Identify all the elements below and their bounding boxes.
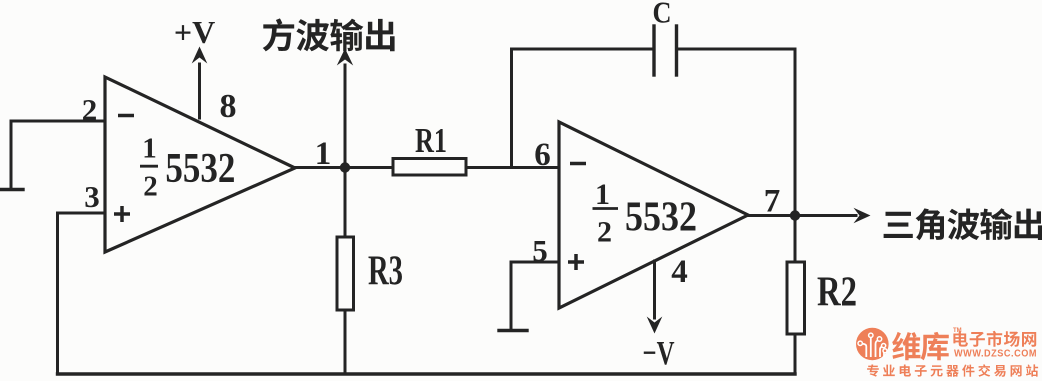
- svg-text:C: C: [653, 0, 672, 30]
- bottom rail wire: [58, 372, 796, 375]
- svg-text:7: 7: [764, 184, 781, 220]
- svg-text:2: 2: [143, 171, 158, 203]
- svg-text:1: 1: [142, 133, 157, 165]
- svg-text:5: 5: [532, 233, 548, 268]
- logo text dian zi shi chang wang: [953, 331, 1036, 347]
- svg-text:5532: 5532: [165, 146, 235, 192]
- ground (pin2 input): [0, 188, 23, 191]
- logo icon circle (dzsc watermark): [856, 328, 889, 361]
- svg-text:8: 8: [220, 88, 237, 125]
- svg-text:3: 3: [84, 179, 100, 214]
- triangle-wave output label (san jiao bo shu chu): [884, 208, 1042, 240]
- logo tagline zhuan ye dian zi yuan qi jian jiao yi wang zhan: [867, 364, 1038, 377]
- -V arrowhead: [647, 317, 663, 334]
- wire triangle-wave output arrow shaft: [795, 214, 856, 217]
- svg-text:−V: −V: [643, 335, 675, 372]
- ground (pin5): [499, 329, 527, 332]
- svg-text:6: 6: [534, 137, 551, 173]
- wire square-wave output (node 1 up): [344, 65, 347, 168]
- capacitor C plates: [652, 26, 655, 75]
- wire R3 to bottom rail: [344, 310, 347, 373]
- U1 fraction bar: [140, 165, 158, 168]
- logo text wei ku: [892, 332, 949, 360]
- svg-text:R2: R2: [817, 270, 857, 316]
- wire U2 output to node 7: [748, 214, 795, 217]
- wire pin5 input: [511, 262, 559, 329]
- svg-text:R1: R1: [415, 121, 447, 160]
- node 1 junction dot: [340, 162, 350, 172]
- wire pin2 input: [11, 121, 105, 188]
- wire feedback top right: [677, 48, 796, 51]
- svg-text:1: 1: [315, 136, 332, 172]
- op-amp U1 (1/2 5532) triangle: [105, 77, 295, 252]
- svg-text:1: 1: [595, 178, 610, 211]
- svg-text:+V: +V: [174, 14, 215, 50]
- wire pin4 to -V: [653, 261, 656, 318]
- +V arrowhead: [192, 47, 208, 64]
- svg-text:R3: R3: [368, 249, 403, 295]
- logo icon circuit traces: [863, 338, 885, 357]
- square-wave output arrowhead: [337, 49, 353, 66]
- svg-text:2: 2: [597, 216, 612, 249]
- svg-text:5532: 5532: [625, 195, 697, 241]
- svg-text:WWW.DZSC.COM: WWW.DZSC.COM: [954, 348, 1037, 360]
- U2 inverting (-) mark: [570, 162, 586, 166]
- svg-text:2: 2: [82, 92, 98, 127]
- node 7 junction dot: [790, 210, 800, 220]
- U2 non-inverting (+) mark: [568, 254, 584, 270]
- wire R2 to bottom rail: [794, 334, 797, 374]
- U1 non-inverting (+) mark: [114, 206, 130, 222]
- wire feedback down to node 7: [794, 49, 797, 216]
- triangle-wave output arrowhead: [854, 208, 871, 224]
- wire node 1 to R1: [345, 166, 393, 169]
- wire node 1 down to R3: [344, 168, 347, 238]
- U2 fraction bar: [593, 207, 619, 210]
- wire R1 to pin 6: [466, 166, 559, 169]
- op-amp U2 (1/2 5532) triangle: [559, 122, 748, 308]
- wire feedback top left: [512, 48, 655, 51]
- resistor R3 body: [337, 237, 354, 310]
- square-wave output label (fang bo shu chu): [263, 18, 395, 51]
- wire node 7 down to R2: [794, 216, 797, 263]
- wire feedback from pin6 node up: [510, 49, 513, 168]
- U1 inverting (-) mark: [118, 114, 134, 118]
- resistor R1 body: [393, 159, 466, 176]
- wire U1 output to node 1: [295, 166, 345, 169]
- wire +V supply to pin 8: [198, 64, 201, 118]
- svg-text:4: 4: [671, 254, 688, 290]
- wire pin3 input from bottom rail: [58, 213, 106, 373]
- resistor R2 body: [787, 262, 805, 334]
